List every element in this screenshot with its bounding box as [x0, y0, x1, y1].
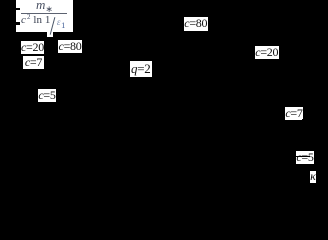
axis tick 2 on label left edge: [16, 22, 20, 25]
denominator big slash: [50, 17, 56, 35]
denominator sup 2: [27, 14, 31, 21]
label c=7 left: [23, 56, 44, 70]
label c=7 right: [285, 107, 303, 120]
denominator ln: [33, 15, 42, 26]
label c=5 left: [38, 89, 56, 103]
denominator c: [21, 15, 26, 26]
numerator star: [45, 5, 53, 14]
denominator 1: [45, 15, 51, 26]
y-axis label box: m_* / (c^2 ln 1/eps_1): [16, 0, 73, 32]
numerator m: [36, 0, 45, 11]
denominator epsilon: [57, 18, 61, 27]
denominator sub 1: [61, 21, 65, 30]
fraction bar: [21, 13, 67, 14]
label q=2: [130, 61, 152, 77]
label c=5 right with curve crossing: [296, 151, 314, 164]
slash descender patch below box: [47, 32, 54, 37]
label c=20 left: [21, 41, 44, 54]
label c=20 right: [255, 46, 279, 59]
curve line through c=5 label: [296, 156, 310, 157]
x-axis label kappa: [310, 171, 316, 183]
axis tick 1 on label left edge: [16, 8, 20, 10]
curve notch at c=7 box corner: [302, 119, 305, 122]
label c=80 left: [58, 40, 82, 54]
label c=80 top: [184, 17, 209, 31]
